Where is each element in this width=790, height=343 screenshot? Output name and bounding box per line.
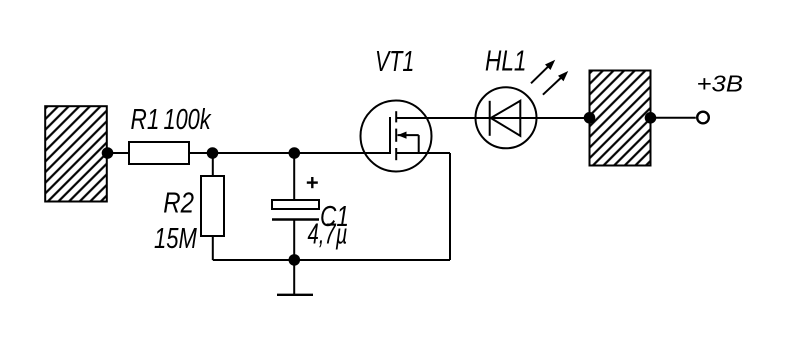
svg-text:R1: R1 [131,102,160,135]
svg-text:VT1: VT1 [375,46,414,78]
svg-text:4,7µ: 4,7µ [308,218,348,250]
svg-text:+3В: +3В [697,72,744,97]
svg-text:15M: 15M [154,223,197,255]
svg-text:R2: R2 [163,186,194,219]
svg-text:100k: 100k [164,104,212,136]
svg-text:HL1: HL1 [485,44,526,77]
